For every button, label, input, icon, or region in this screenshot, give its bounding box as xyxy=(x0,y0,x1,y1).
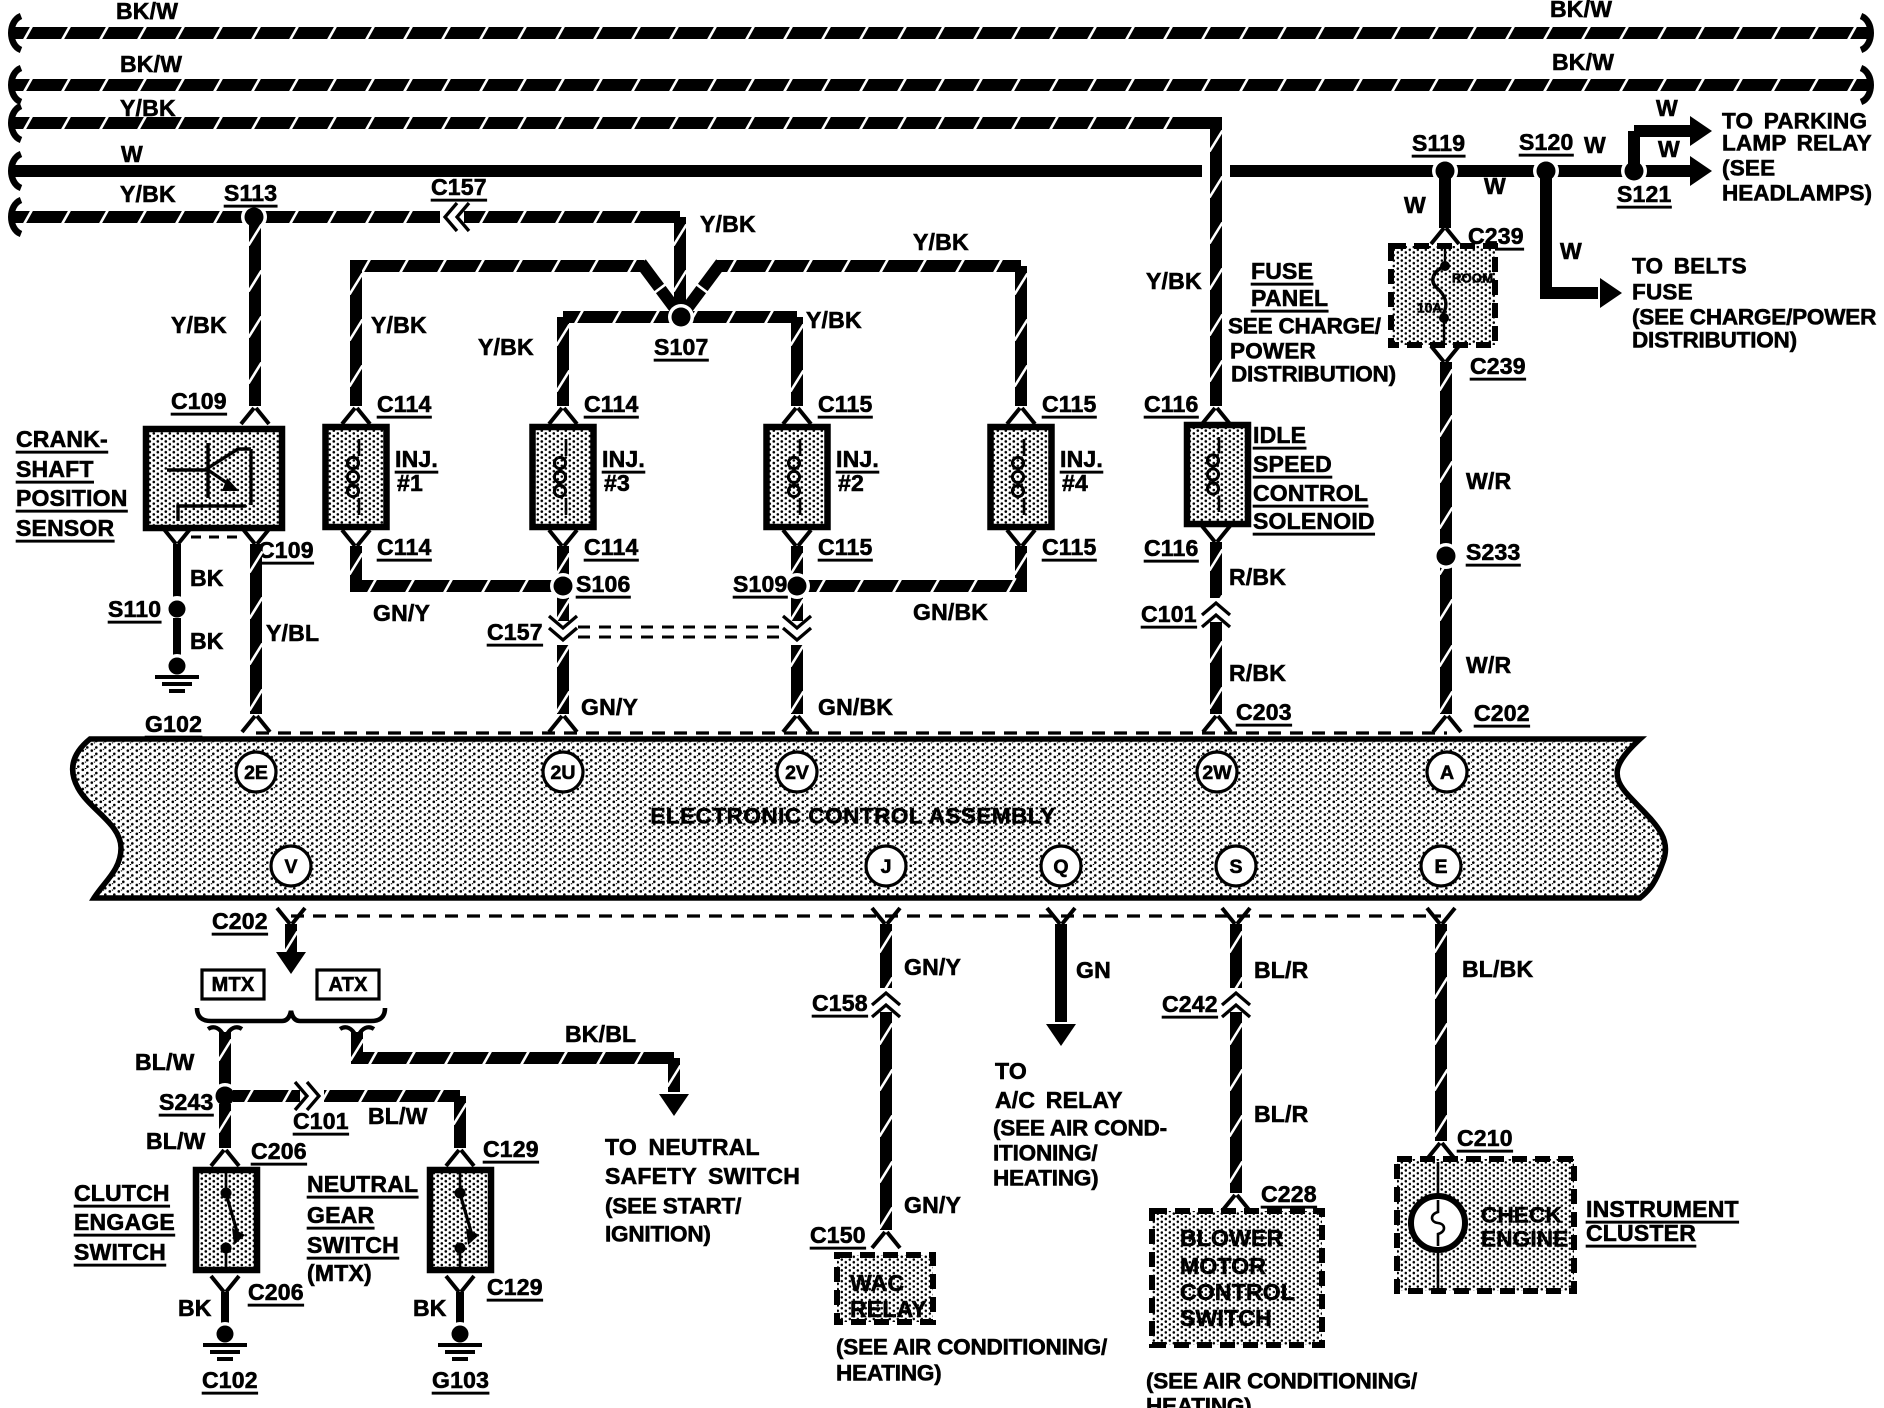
svg-text:C116: C116 xyxy=(1144,535,1199,561)
svg-text:Y/BK: Y/BK xyxy=(806,307,862,333)
svg-text:ITIONING/: ITIONING/ xyxy=(993,1141,1098,1166)
svg-text:ATX: ATX xyxy=(328,974,368,996)
svg-text:SWITCH: SWITCH xyxy=(307,1232,399,1258)
MTX box xyxy=(202,970,264,999)
label BL/W (above S243) xyxy=(135,1049,195,1075)
wire GN/BK INJ4 to S109 xyxy=(805,546,1028,594)
svg-text:SHAFT: SHAFT xyxy=(16,456,94,482)
svg-text:Y/BK: Y/BK xyxy=(1146,268,1202,294)
svg-text:(SEE START/: (SEE START/ xyxy=(605,1194,742,1219)
svg-text:W: W xyxy=(1484,173,1506,199)
ECA pin Q xyxy=(1041,846,1081,886)
check engine indicator box xyxy=(1397,1159,1574,1291)
svg-text:ELECTRONIC CONTROL ASSEMBLY: ELECTRONIC CONTROL ASSEMBLY xyxy=(650,804,1055,829)
svg-text:BK/W: BK/W xyxy=(120,51,182,77)
label INJ. #1 xyxy=(395,446,438,496)
svg-text:INJ.: INJ. xyxy=(1060,446,1103,472)
svg-text:ENGINE: ENGINE xyxy=(1481,1227,1568,1252)
label BL/R (upper) xyxy=(1254,957,1309,983)
label C101 (ISC) xyxy=(1141,601,1197,627)
label S233 xyxy=(1466,539,1521,565)
label BK/W (bus 2 left) xyxy=(120,51,182,77)
label C239 (top) xyxy=(1468,223,1524,249)
svg-text:A: A xyxy=(1440,762,1454,784)
label BL/R (lower) xyxy=(1254,1101,1309,1127)
label FUSE PANEL xyxy=(1251,258,1328,311)
label WAC RELAY xyxy=(850,1270,927,1322)
label Y/BK (bus 3 vertical) xyxy=(1146,268,1202,294)
fuse symbol ROOM 10A xyxy=(1433,249,1450,342)
wire GN/Y ECA pin J to WAC relay xyxy=(880,924,893,1230)
connector fork below ECA pin V xyxy=(277,908,305,924)
svg-text:W: W xyxy=(1560,238,1582,264)
label G102 xyxy=(145,711,202,737)
idle speed control solenoid box xyxy=(1187,425,1248,524)
svg-text:ENGAGE: ENGAGE xyxy=(74,1209,175,1235)
connector fork into ECA pin A xyxy=(1433,716,1461,732)
svg-text:NEUTRAL: NEUTRAL xyxy=(307,1171,418,1197)
label C114 below injector #3 xyxy=(584,534,639,560)
svg-text:C158: C158 xyxy=(812,990,868,1016)
splice S120 xyxy=(1533,158,1559,184)
svg-text:C114: C114 xyxy=(584,391,639,417)
wire BL/BK ECA pin E to check engine lamp xyxy=(1435,924,1448,1141)
svg-text:R/BK: R/BK xyxy=(1229,564,1286,590)
svg-text:W: W xyxy=(1658,136,1680,162)
label GN/Y (upper) xyxy=(904,954,961,980)
label W (between S119 S120) xyxy=(1484,173,1506,199)
label GN/Y (S106 horizontal) xyxy=(373,600,430,626)
connector fork below ECA pin E xyxy=(1427,908,1455,924)
label C114 top of injector #1 xyxy=(377,391,432,417)
connector fork below ECA pin Q xyxy=(1047,908,1075,924)
injector #4 box xyxy=(991,427,1052,527)
ECA pin 2V xyxy=(777,752,817,792)
svg-text:(SEE: (SEE xyxy=(1722,156,1775,181)
svg-text:CLUSTER: CLUSTER xyxy=(1586,1220,1696,1246)
label W (upper arrow) xyxy=(1656,95,1678,121)
svg-text:Y/BK: Y/BK xyxy=(371,312,427,338)
label G103 xyxy=(432,1367,489,1393)
label C101 (S243 wire) xyxy=(293,1108,349,1134)
svg-text:Y/BK: Y/BK xyxy=(478,334,534,360)
splice S113 on bus 5 xyxy=(241,204,267,230)
svg-text:C101: C101 xyxy=(293,1108,349,1134)
svg-text:GN/Y: GN/Y xyxy=(581,694,638,720)
svg-text:CONTROL: CONTROL xyxy=(1253,480,1368,506)
svg-text:V: V xyxy=(284,856,297,878)
label C206 (top) xyxy=(251,1138,307,1164)
svg-text:MTX: MTX xyxy=(212,974,255,996)
svg-text:Y/BK: Y/BK xyxy=(700,211,756,237)
label C242 xyxy=(1162,991,1218,1017)
svg-text:C115: C115 xyxy=(818,391,873,417)
svg-text:C203: C203 xyxy=(1236,699,1292,725)
ECA pin J xyxy=(866,846,906,886)
label W (bus 4 left) xyxy=(121,141,143,167)
brace under MTX/ATX xyxy=(197,1008,385,1021)
svg-text:MOTOR: MOTOR xyxy=(1180,1253,1266,1279)
connector fork into ECA pin 2U xyxy=(549,716,577,732)
svg-text:BK/W: BK/W xyxy=(116,0,178,24)
svg-text:GN/Y: GN/Y xyxy=(904,954,961,980)
splice S243 xyxy=(212,1083,238,1109)
wire R/BK ISC to C101 xyxy=(1210,542,1223,714)
label CHECK ENGINE xyxy=(1481,1203,1568,1252)
label W (before branch) xyxy=(1584,132,1606,158)
wire BL/R ECA pin S to blower switch xyxy=(1230,924,1243,1193)
wire BL/W MTX branch to S243 xyxy=(219,1032,232,1088)
svg-text:BK: BK xyxy=(190,628,224,654)
connector fork C228 top of blower switch xyxy=(1222,1195,1250,1211)
svg-text:S110: S110 xyxy=(108,596,161,622)
svg-text:(SEE AIR COND-: (SEE AIR COND- xyxy=(993,1116,1167,1141)
wire GN/Y INJ1 to S106 xyxy=(350,546,553,594)
wire BL/W S243 to C206 xyxy=(219,1104,232,1148)
svg-text:C114: C114 xyxy=(377,391,432,417)
svg-text:S107: S107 xyxy=(654,334,709,360)
label C116 (top) xyxy=(1144,391,1199,417)
label 10A xyxy=(1417,301,1442,316)
svg-text:2W: 2W xyxy=(1202,762,1232,784)
svg-text:#1: #1 xyxy=(397,470,423,496)
splice S119 xyxy=(1432,158,1458,184)
connector fork C109 top of crank sensor xyxy=(241,408,269,424)
label BL/W (below S243) xyxy=(146,1128,206,1154)
svg-text:S119: S119 xyxy=(1412,130,1465,156)
label TO NEUTRAL SAFETY SWITCH (SEE START/IGNITION) xyxy=(605,1134,800,1247)
label INJ. #2 xyxy=(836,446,879,496)
wire BK neutral gear switch to ground xyxy=(456,1292,464,1326)
label C157 (bus 5) xyxy=(431,174,487,200)
svg-text:S113: S113 xyxy=(224,180,277,206)
ECA pin S xyxy=(1216,846,1256,886)
connector fork C116 top of ISC solenoid xyxy=(1202,408,1230,424)
label C158 xyxy=(812,990,868,1016)
label C115 top of injector #2 xyxy=(818,391,873,417)
wire W arrow to parking lamp relay (lower) xyxy=(1690,156,1712,186)
label S121 xyxy=(1617,181,1672,207)
label C102 xyxy=(202,1367,258,1393)
wire Y/BK to INJ4 (horizontal) xyxy=(716,258,1028,406)
label Y/BK (crank branch) xyxy=(171,312,227,338)
clutch engage switch box xyxy=(196,1170,257,1270)
svg-text:Y/BK: Y/BK xyxy=(120,95,176,121)
svg-text:S233: S233 xyxy=(1466,539,1521,565)
label IDLE SPEED CONTROL SOLENOID xyxy=(1253,422,1375,534)
svg-text:#3: #3 xyxy=(604,470,630,496)
connector fork under ATX branch xyxy=(340,1027,374,1036)
svg-text:S243: S243 xyxy=(159,1089,214,1115)
svg-text:SAFETY SWITCH: SAFETY SWITCH xyxy=(605,1163,800,1189)
svg-text:CONTROL: CONTROL xyxy=(1180,1279,1295,1305)
svg-text:S109: S109 xyxy=(733,571,788,597)
injector #4 coil symbol xyxy=(1012,439,1024,515)
label R/BK (upper) xyxy=(1229,564,1286,590)
connector fork C114 below injector #1 xyxy=(342,530,370,546)
wire from ECA pin V down xyxy=(276,924,306,974)
ground G102 xyxy=(155,654,199,691)
svg-text:C115: C115 xyxy=(818,534,873,560)
wire Y/BL crank sensor to ECA pin 2E xyxy=(250,544,263,714)
svg-text:BK: BK xyxy=(413,1295,447,1321)
check engine bulb symbol xyxy=(1411,1162,1465,1288)
label TO A/C RELAY (SEE AIR CONDITIONING/HEATING) xyxy=(993,1058,1167,1191)
svg-text:LAMP RELAY: LAMP RELAY xyxy=(1722,131,1872,156)
svg-text:2E: 2E xyxy=(244,762,268,784)
svg-text:C115: C115 xyxy=(1042,534,1097,560)
svg-text:C239: C239 xyxy=(1470,353,1526,379)
label C129 (top) xyxy=(483,1136,539,1162)
connector fork C115 top of injector #2 xyxy=(783,408,811,424)
label Y/BK (INJ1 branch) xyxy=(371,312,427,338)
svg-text:SEE CHARGE/: SEE CHARGE/ xyxy=(1228,314,1382,339)
label BL/BK xyxy=(1462,956,1533,982)
injector #3 box xyxy=(533,427,594,527)
wire W from S119 down to fuse C239 xyxy=(1439,171,1451,228)
svg-text:Y/BK: Y/BK xyxy=(913,229,969,255)
crankshaft position sensor box xyxy=(146,429,282,528)
svg-text:CRANK-: CRANK- xyxy=(16,426,108,452)
ground C102 xyxy=(203,1322,247,1359)
label S113 xyxy=(224,180,277,206)
connector fork under MTX branch xyxy=(208,1027,242,1036)
svg-text:C210: C210 xyxy=(1457,1125,1513,1151)
label Y/BK (bus 3 left) xyxy=(120,95,176,121)
label GN/BK (S109 horizontal) xyxy=(913,599,988,625)
svg-text:BK: BK xyxy=(178,1295,212,1321)
connector C101 inline on R/BK wire xyxy=(1202,598,1230,627)
connector fork C210 top of check engine xyxy=(1427,1143,1455,1159)
label TO BELTS FUSE (SEE CHARGE/POWER DISTRIBUTION) xyxy=(1632,254,1876,353)
label Y/BK (INJ4 branch) xyxy=(913,229,969,255)
label C115 below injector #4 xyxy=(1042,534,1097,560)
svg-text:S120: S120 xyxy=(1519,129,1574,155)
wire W upper branch to parking lamp relay xyxy=(1628,116,1712,171)
svg-text:BL/W: BL/W xyxy=(146,1128,206,1154)
connector fork C114 top of injector #1 xyxy=(342,408,370,424)
injector #3 coil symbol xyxy=(554,439,566,515)
svg-text:S: S xyxy=(1229,856,1242,878)
label GN/Y (lower, J branch) xyxy=(904,1192,961,1218)
label S106 xyxy=(576,571,631,597)
svg-text:DISTRIBUTION): DISTRIBUTION) xyxy=(1231,362,1396,387)
svg-text:BL/BK: BL/BK xyxy=(1462,956,1533,982)
label CRANK- SHAFT POSITION SENSOR xyxy=(16,426,128,541)
wire W bus 4 xyxy=(11,154,1690,188)
svg-text:BL/W: BL/W xyxy=(135,1049,195,1075)
connector fork into ECA pin 2V xyxy=(783,716,811,732)
connector fork C115 below injector #2 xyxy=(783,530,811,546)
wire W from S120 down to belts fuse arrow xyxy=(1540,171,1622,308)
label CLUTCH ENGAGE SWITCH xyxy=(74,1180,175,1265)
svg-text:Q: Q xyxy=(1053,856,1068,878)
label C109 (bottom) xyxy=(258,537,314,563)
wire BK/W bus 1 xyxy=(11,16,1871,50)
ATX box xyxy=(317,970,379,999)
connector fork into ECA pin 2E xyxy=(242,716,270,732)
label C114 below injector #1 xyxy=(377,534,432,560)
connector fork C115 below injector #4 xyxy=(1007,530,1035,546)
connector fork below crank sensor left pin xyxy=(163,528,191,544)
connector C157 inline on bus 5 xyxy=(440,203,469,231)
connector C101 inline on S243 wire xyxy=(295,1082,324,1110)
svg-text:G102: G102 xyxy=(145,711,202,737)
label GN/BK (lower) xyxy=(818,694,893,720)
dashed connector line below ECA xyxy=(291,914,1441,917)
svg-text:HEATING): HEATING) xyxy=(836,1361,941,1386)
ECA pin 2E xyxy=(236,752,276,792)
svg-text:FUSE: FUSE xyxy=(1251,258,1313,284)
label C109 (top) xyxy=(171,388,227,414)
svg-text:R/BK: R/BK xyxy=(1229,660,1286,686)
injector #1 coil symbol xyxy=(347,439,359,515)
svg-text:C129: C129 xyxy=(483,1136,539,1162)
label W (lower arrow) xyxy=(1658,136,1680,162)
svg-text:Y/BK: Y/BK xyxy=(171,312,227,338)
svg-text:C114: C114 xyxy=(584,534,639,560)
svg-text:INJ.: INJ. xyxy=(602,446,645,472)
wire BK clutch switch to ground xyxy=(221,1292,229,1326)
label Y/BK (INJ2 branch) xyxy=(806,307,862,333)
svg-text:A/C RELAY: A/C RELAY xyxy=(995,1087,1123,1113)
label C115 below injector #2 xyxy=(818,534,873,560)
svg-text:E: E xyxy=(1434,856,1447,878)
svg-text:Y/BL: Y/BL xyxy=(266,620,319,646)
svg-text:BL/R: BL/R xyxy=(1254,1101,1309,1127)
svg-text:W: W xyxy=(1656,95,1678,121)
label BK/W (bus 1 right) xyxy=(1550,0,1612,22)
svg-text:BK/W: BK/W xyxy=(1552,49,1614,75)
connector C242 inline xyxy=(1222,988,1250,1017)
label W (S120 branch) xyxy=(1560,238,1582,264)
label Y/BL xyxy=(266,620,319,646)
label C114 top of injector #3 xyxy=(584,391,639,417)
wire Y/BK from S113 to crankshaft sensor xyxy=(249,217,262,406)
label C203 xyxy=(1236,699,1292,725)
splice S109 xyxy=(784,573,810,599)
svg-text:C228: C228 xyxy=(1261,1181,1317,1207)
svg-text:C116: C116 xyxy=(1144,391,1199,417)
svg-text:TO BELTS: TO BELTS xyxy=(1632,254,1747,279)
wire diagonal right from S107 xyxy=(683,263,721,314)
label C239 (bottom) xyxy=(1470,353,1526,379)
label C116 (bottom) xyxy=(1144,535,1199,561)
svg-text:GEAR: GEAR xyxy=(307,1202,374,1228)
svg-text:SPEED: SPEED xyxy=(1253,451,1332,477)
svg-text:C115: C115 xyxy=(1042,391,1097,417)
svg-text:10A: 10A xyxy=(1417,301,1442,316)
svg-text:DISTRIBUTION): DISTRIBUTION) xyxy=(1632,328,1797,353)
ECA pin V xyxy=(271,846,311,886)
svg-text:#4: #4 xyxy=(1062,470,1088,496)
ECA pin E xyxy=(1421,846,1461,886)
label Y/BK (INJ3 branch) xyxy=(478,334,534,360)
label Y/BK (bus 5 left) xyxy=(120,181,176,207)
svg-text:W/R: W/R xyxy=(1466,468,1511,494)
connector fork C206 below clutch switch xyxy=(211,1276,239,1292)
svg-text:C150: C150 xyxy=(810,1222,866,1248)
svg-text:2U: 2U xyxy=(551,762,576,784)
label Y/BK (bus 5 corner) xyxy=(700,211,756,237)
svg-text:BK: BK xyxy=(190,565,224,591)
injector #2 coil symbol xyxy=(788,439,800,515)
label SEE CHARGE/POWER DISTRIBUTION xyxy=(1228,314,1396,387)
svg-text:POSITION: POSITION xyxy=(16,485,128,511)
label BLOWER MOTOR CONTROL SWITCH xyxy=(1180,1225,1295,1331)
electronic control assembly band xyxy=(73,739,1666,898)
svg-text:RELAY: RELAY xyxy=(850,1296,927,1322)
svg-text:2V: 2V xyxy=(785,762,809,784)
connector fork C239 top of fuse xyxy=(1431,228,1459,244)
svg-text:HEATING): HEATING) xyxy=(993,1166,1098,1191)
label INJ. #4 xyxy=(1060,446,1103,496)
wire BK crank to S110 xyxy=(173,544,181,600)
svg-text:GN/BK: GN/BK xyxy=(818,694,893,720)
dashed connector line C109 below crank box xyxy=(191,536,242,539)
connector C158 inline xyxy=(872,988,900,1017)
label S110 xyxy=(108,596,161,622)
svg-text:GN/Y: GN/Y xyxy=(904,1192,961,1218)
ground G103 xyxy=(438,1322,482,1359)
svg-text:BK/W: BK/W xyxy=(1550,0,1612,22)
svg-text:C109: C109 xyxy=(171,388,227,414)
wire BK/W bus 2 xyxy=(11,68,1871,102)
svg-text:WAC: WAC xyxy=(850,1270,904,1296)
svg-text:S121: S121 xyxy=(1617,181,1672,207)
label C129 (bottom) xyxy=(487,1274,543,1300)
label BK/BL xyxy=(565,1021,636,1047)
label C202 (top) xyxy=(1474,700,1530,726)
connector fork below ECA pin J xyxy=(872,908,900,924)
neutral gear switch symbol xyxy=(455,1170,480,1270)
svg-text:S106: S106 xyxy=(576,571,631,597)
label GN xyxy=(1076,957,1111,983)
svg-text:(SEE AIR CONDITIONING/: (SEE AIR CONDITIONING/ xyxy=(836,1335,1108,1360)
svg-text:SWITCH: SWITCH xyxy=(1180,1305,1272,1331)
label S107 xyxy=(654,334,709,360)
svg-text:C114: C114 xyxy=(377,534,432,560)
label GN/Y (lower) xyxy=(581,694,638,720)
svg-text:CLUTCH: CLUTCH xyxy=(74,1180,170,1206)
connector C157 inline on INJ2 wire xyxy=(783,616,811,645)
svg-text:W: W xyxy=(1584,132,1606,158)
label C115 top of injector #4 xyxy=(1042,391,1097,417)
svg-text:C206: C206 xyxy=(251,1138,307,1164)
svg-text:BL/W: BL/W xyxy=(368,1103,428,1129)
connector fork below ECA pin S xyxy=(1222,908,1250,924)
label C206 (bottom) xyxy=(248,1279,304,1305)
svg-text:C101: C101 xyxy=(1141,601,1197,627)
connector fork C129 below neutral gear switch xyxy=(446,1276,474,1292)
svg-text:(SEE CHARGE/POWER: (SEE CHARGE/POWER xyxy=(1632,305,1876,330)
label ELECTRONIC CONTROL ASSEMBLY xyxy=(650,804,1055,829)
label BK/W (bus 2 right) xyxy=(1552,49,1614,75)
ECA pin A xyxy=(1427,752,1467,792)
svg-text:(MTX): (MTX) xyxy=(307,1260,372,1286)
svg-text:GN/Y: GN/Y xyxy=(373,600,430,626)
label S243 xyxy=(159,1089,214,1115)
splice S110 xyxy=(164,596,190,622)
label BK (clutch) xyxy=(178,1295,212,1321)
svg-text:C129: C129 xyxy=(487,1274,543,1300)
connector fork C114 below injector #3 xyxy=(549,530,577,546)
svg-text:C242: C242 xyxy=(1162,991,1218,1017)
svg-text:J: J xyxy=(881,856,892,878)
splice S106 xyxy=(550,573,576,599)
svg-text:#2: #2 xyxy=(838,470,864,496)
wire W/R fuse to ECA pin A xyxy=(1440,362,1453,714)
